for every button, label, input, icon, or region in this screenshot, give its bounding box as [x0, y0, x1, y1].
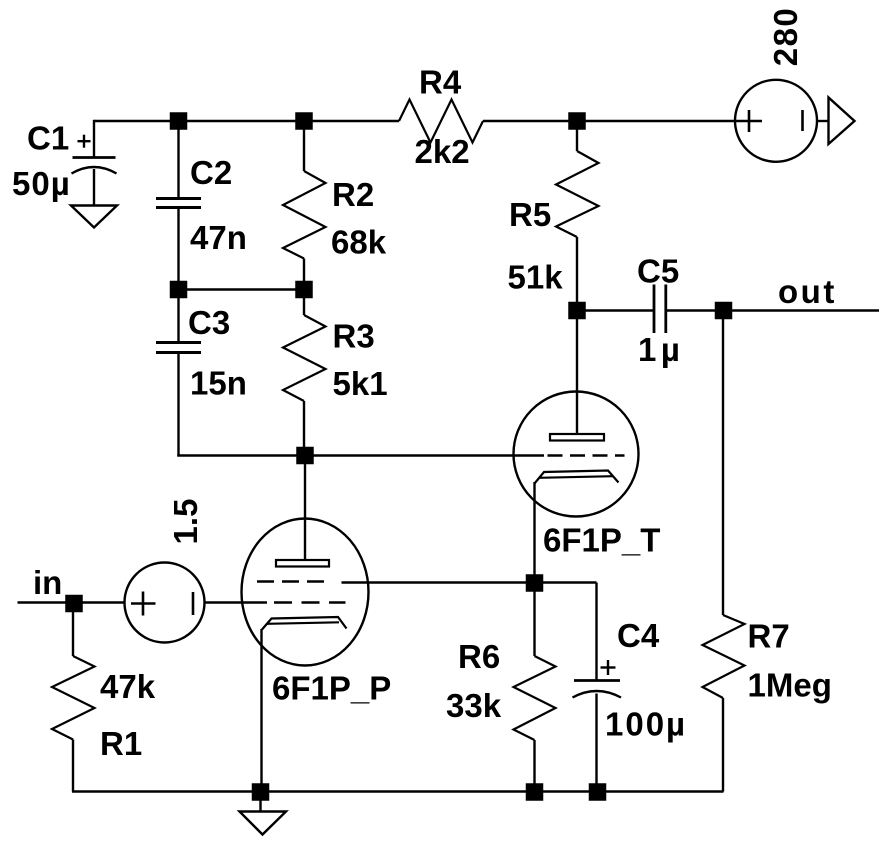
- minus sign inside 280V source (rotated vertical bar): [801, 110, 804, 131]
- node junction J3 top of R5: [568, 112, 586, 130]
- node junction J8 out node: [715, 302, 733, 320]
- wire C2 bottom lead: [177, 209, 179, 291]
- resistor R1 zigzag: [52, 656, 95, 740]
- wire C1 top lead: [93, 120, 95, 157]
- wire R3 top lead: [303, 290, 305, 316]
- wire C2 top lead: [177, 121, 179, 198]
- ground symbol bottom: [240, 812, 287, 835]
- wire bottom ground rail: [72, 790, 724, 792]
- resistor R2 zigzag: [283, 171, 326, 259]
- wire J7 to C5 left plate: [577, 309, 654, 311]
- tube U1 6F1P_P pentode envelope: [242, 519, 369, 666]
- wire node C row to triode grid: [177, 454, 544, 456]
- capacitor C4 top plate: [574, 679, 620, 682]
- node junction J13 C4 bottom: [589, 783, 607, 801]
- wire R3 bottom lead: [303, 401, 305, 456]
- output port arrow of 280V supply: [829, 98, 855, 145]
- capacitor C5 plates: [653, 285, 656, 334]
- svg-text:47n: 47n: [190, 219, 247, 256]
- svg-text:C5: C5: [637, 253, 679, 290]
- svg-text:1Meg: 1Meg: [748, 667, 832, 704]
- wire triode cathode lead: [533, 482, 535, 583]
- svg-text:15n: 15n: [190, 365, 247, 402]
- wire pentode plate lead: [304, 456, 306, 561]
- wire R5 top lead: [576, 121, 578, 151]
- node junction J6 grid node: [296, 447, 314, 465]
- resistor R4 zigzag: [399, 100, 483, 143]
- wire C1 bottom lead: [93, 169, 95, 206]
- node junction J1 top of C2: [170, 112, 188, 130]
- svg-text:50µ: 50µ: [12, 165, 71, 202]
- node junction J12 R6 bottom: [526, 783, 544, 801]
- triode cathode: [535, 471, 619, 484]
- wire top rail left segment: [94, 120, 399, 122]
- svg-text:R6: R6: [458, 638, 500, 675]
- resistor R5 zigzag: [556, 151, 599, 237]
- wire pentode screen to J9 to C4 corner: [342, 581, 597, 583]
- capacitor C3 plates: [156, 341, 201, 344]
- wire R1 top lead: [72, 603, 74, 656]
- voltage source V1 1.5V circle: [125, 563, 205, 643]
- svg-text:R3: R3: [333, 318, 375, 355]
- pentode cathode: [262, 617, 347, 630]
- svg-text:280: 280: [767, 7, 804, 67]
- wire R6 top lead: [533, 583, 535, 656]
- pentode screen grid dashed line: [257, 580, 324, 582]
- node junction J10 in-R1: [65, 595, 83, 613]
- svg-text:C2: C2: [190, 154, 232, 191]
- svg-text:C1: C1: [27, 120, 69, 157]
- wire R7 top lead: [722, 311, 724, 616]
- svg-text:1.5: 1.5: [167, 499, 204, 545]
- svg-text:33k: 33k: [446, 687, 502, 724]
- svg-text:R5: R5: [509, 196, 551, 233]
- svg-text:6F1P_P: 6F1P_P: [272, 670, 391, 707]
- resistor R7 zigzag: [703, 615, 745, 698]
- svg-text:out: out: [778, 273, 837, 310]
- minus sign inside 1.5V source (rotated vertical bar): [192, 592, 195, 615]
- wire R2 top lead: [303, 121, 305, 171]
- wire C3 top lead: [177, 290, 179, 342]
- pentode anode bar: [276, 560, 329, 567]
- triode anode bar: [550, 434, 604, 441]
- resistor R6 zigzag: [514, 656, 556, 740]
- wire top rail right segment: [483, 120, 735, 122]
- svg-text:C4: C4: [617, 617, 660, 654]
- node junction J11 ground node: [252, 783, 270, 801]
- svg-text:R4: R4: [419, 64, 462, 101]
- svg-text:in: in: [33, 564, 62, 601]
- svg-text:R1: R1: [100, 725, 142, 762]
- voltage source V2 280V circle: [735, 80, 817, 162]
- capacitor C1 curved plate: [72, 167, 117, 174]
- wire C4 bottom lead: [595, 694, 597, 793]
- plus sign inside 280V source: [736, 110, 762, 132]
- capacitor C2 plates: [156, 197, 201, 200]
- svg-text:2k2: 2k2: [415, 133, 470, 170]
- wire R6 bottom lead: [533, 740, 535, 792]
- node junction J4 C2-C3: [170, 281, 188, 299]
- wire triode plate lead: [576, 311, 578, 435]
- svg-text:100µ: 100µ: [605, 706, 687, 743]
- svg-text:1µ: 1µ: [638, 331, 684, 368]
- wire in net left: [18, 601, 125, 603]
- capacitor C4 curved plate: [573, 691, 622, 698]
- svg-text:R7: R7: [748, 618, 790, 655]
- tube U2 6F1P_T triode envelope: [514, 392, 639, 517]
- wire R2 bottom lead: [303, 259, 305, 291]
- pentode control grid dashed line: [274, 601, 346, 603]
- node junction J2 top of R2: [295, 112, 313, 130]
- plus sign of C4: [601, 666, 616, 668]
- wire stub source to arrow: [817, 120, 829, 122]
- wire C3 bottom lead: [177, 353, 179, 457]
- wire ground stub below J11: [259, 792, 261, 812]
- wire R5 bottom lead: [576, 237, 578, 311]
- resistor R3 zigzag: [283, 315, 326, 401]
- svg-text:5k1: 5k1: [333, 365, 388, 402]
- svg-text:R2: R2: [332, 176, 374, 213]
- wire 1.5V source to pentode grid: [204, 601, 268, 603]
- svg-text:6F1P_T: 6F1P_T: [543, 522, 660, 559]
- triode grid dashed line: [548, 454, 625, 456]
- node junction J5 R2-R3: [295, 281, 313, 299]
- wire C4 top lead: [595, 583, 597, 680]
- svg-text:47k: 47k: [100, 668, 156, 705]
- ground symbol below C1: [71, 206, 117, 228]
- wire pentode cathode lead: [260, 629, 262, 792]
- plus sign inside 1.5V source: [131, 592, 156, 616]
- node junction J9 cathode-R6: [526, 574, 544, 592]
- wire R7 bottom lead: [722, 698, 724, 792]
- svg-text:C3: C3: [188, 304, 230, 341]
- wire C5 right plate to J8: [667, 309, 724, 311]
- plus sign of C1: [78, 140, 91, 142]
- wire out net: [724, 309, 880, 311]
- node junction J7 R5-C5: [568, 302, 586, 320]
- wire row2 J4 to J5: [179, 288, 305, 290]
- svg-text:51k: 51k: [508, 259, 564, 296]
- capacitor C1 top plate: [73, 156, 116, 159]
- svg-text:68k: 68k: [331, 224, 387, 261]
- wire R1 bottom lead: [72, 740, 74, 792]
